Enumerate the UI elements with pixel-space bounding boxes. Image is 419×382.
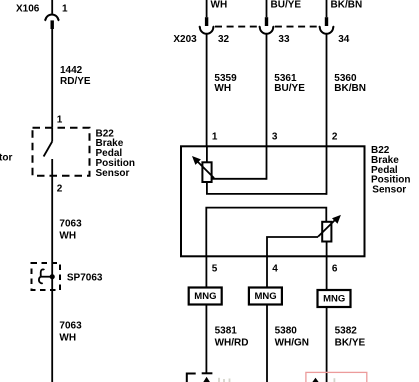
- wire pin3 inside box: [266, 146, 268, 179]
- svg-text:MNG: MNG: [323, 294, 345, 305]
- svg-text:X203: X203: [173, 34, 197, 45]
- svg-text:32: 32: [218, 34, 230, 45]
- wire pin6 below box: [326, 256, 328, 290]
- switch contact lower: [51, 159, 53, 176]
- svg-text:BU/YE: BU/YE: [271, 0, 302, 10]
- svg-text:BK/YE: BK/YE: [335, 338, 366, 349]
- svg-text:5382: 5382: [335, 326, 358, 337]
- svg-text:34: 34: [338, 34, 350, 45]
- connector X203 pin 33: [259, 17, 274, 34]
- svg-text:3: 3: [272, 132, 278, 143]
- svg-text:1: 1: [212, 132, 218, 143]
- svg-text:1: 1: [57, 115, 63, 126]
- crossbar on wire 5381: [202, 372, 213, 374]
- arrowhead inside red box: [312, 378, 318, 382]
- potentiometer R1 body: [202, 162, 211, 182]
- connector X203 pin 34: [319, 17, 334, 34]
- svg-text:1442: 1442: [60, 65, 83, 76]
- svg-text:WH: WH: [59, 332, 76, 343]
- svg-text:WH/RD: WH/RD: [215, 338, 249, 349]
- faint gray marks (cut-off gray text): [219, 378, 230, 382]
- svg-text:Sensor: Sensor: [96, 168, 130, 179]
- connector X106 (female cap): [45, 14, 60, 29]
- svg-text:tor: tor: [0, 153, 12, 164]
- wire pin4 to wiper R2: [267, 237, 318, 256]
- svg-text:7063: 7063: [59, 219, 82, 230]
- svg-text:WH: WH: [214, 83, 231, 94]
- svg-text:2: 2: [332, 132, 338, 143]
- svg-text:WH: WH: [211, 0, 228, 10]
- wire stub col1 (WH): [206, 0, 208, 17]
- wire 5380 WH/GN: [266, 305, 268, 382]
- svg-text:BK/BN: BK/BN: [331, 0, 363, 10]
- wire 5359 WH: [206, 34, 208, 146]
- svg-text:WH: WH: [59, 231, 76, 242]
- svg-text:MNG: MNG: [194, 291, 216, 302]
- MNG box 1: [189, 288, 222, 305]
- wire pin2 inside box: [326, 146, 328, 195]
- svg-text:BU/YE: BU/YE: [274, 83, 305, 94]
- wire pin5 to pot2 top: [206, 208, 326, 257]
- arrowhead below wire 5381: [203, 377, 210, 382]
- svg-text:SP7063: SP7063: [67, 272, 103, 283]
- wire 1442 RD/YE: [51, 29, 53, 128]
- svg-text:Sensor: Sensor: [372, 184, 406, 195]
- red highlight box: [306, 372, 367, 382]
- wire pin5 below box: [205, 256, 207, 287]
- wire 5381 WH/RD: [205, 305, 207, 374]
- svg-text:2: 2: [57, 184, 63, 195]
- pot1 bottom to pin 2: [207, 182, 327, 194]
- switch contact upper: [51, 128, 53, 142]
- svg-text:MNG: MNG: [255, 291, 277, 302]
- potentiometer R2 body: [322, 222, 331, 242]
- svg-text:7063: 7063: [59, 320, 82, 331]
- wire pin1 into pot1: [206, 146, 208, 162]
- svg-text:RD/YE: RD/YE: [60, 76, 91, 87]
- wire into X106 from top: [51, 0, 53, 14]
- box B22 sensor: [181, 146, 365, 256]
- splice SP7063: [32, 263, 61, 290]
- svg-text:4: 4: [272, 263, 278, 274]
- connector X203 pin 32: [199, 17, 214, 34]
- svg-text:33: 33: [278, 34, 290, 45]
- faint gray mark in red box: [333, 378, 335, 382]
- wire 5360 BK/BN: [326, 34, 328, 146]
- wire pin4 below box: [266, 256, 268, 287]
- dashed box B22 switch: [33, 128, 90, 176]
- wire stub col2 (BU/YE): [266, 0, 268, 17]
- switch blade: [44, 142, 53, 157]
- wire stub col3 (BK/BN): [326, 0, 328, 17]
- MNG box 2: [249, 288, 282, 305]
- wiper R1 to pin 3: [212, 178, 267, 180]
- wire 5382 BK/YE: [326, 307, 328, 382]
- potentiometer R2 wiper arrow: [318, 215, 341, 237]
- svg-text:5381: 5381: [215, 326, 238, 337]
- potentiometer R1 wiper arrow: [192, 156, 214, 178]
- svg-text:5380: 5380: [275, 326, 298, 337]
- svg-text:WH/GN: WH/GN: [275, 338, 309, 349]
- svg-text:6: 6: [332, 263, 338, 274]
- wire 5361 BU/YE: [266, 34, 268, 146]
- wire 7063 WH (upper): [51, 176, 53, 382]
- dashed connector link 33-34: [275, 26, 319, 28]
- MNG box 3: [318, 290, 351, 307]
- svg-text:BK/BN: BK/BN: [334, 83, 366, 94]
- svg-text:X106: X106: [16, 4, 40, 15]
- svg-text:1: 1: [62, 4, 68, 15]
- bottom component box corner (left): [187, 374, 196, 382]
- svg-text:5: 5: [212, 263, 218, 274]
- dashed connector link 32-33: [215, 26, 258, 28]
- pot2 bottom to pin 6: [326, 242, 328, 257]
